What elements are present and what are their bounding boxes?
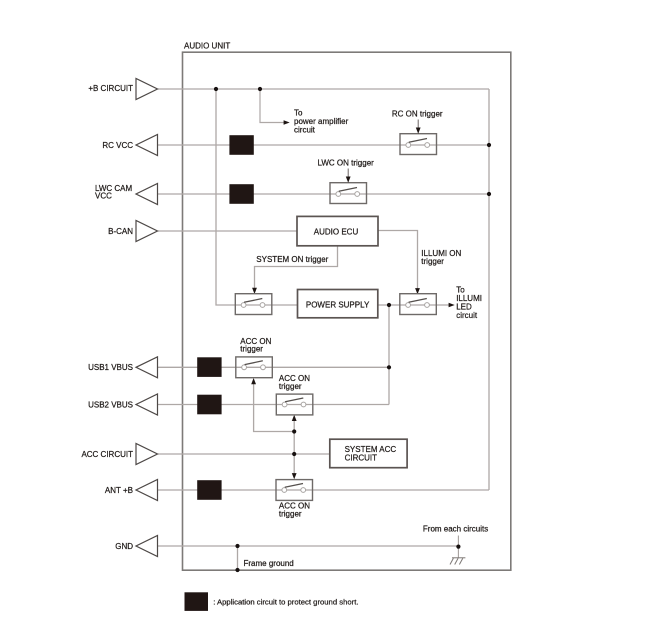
wire ACC CIRCUIT row y=454	[158, 453, 330, 455]
ground symbol chassis	[450, 558, 465, 565]
wire +B bus horizontal y=89	[158, 88, 489, 90]
junction dot +B branch1	[214, 87, 218, 91]
svg-text:trigger: trigger	[421, 257, 444, 266]
svg-text:POWER SUPPLY: POWER SUPPLY	[306, 301, 370, 310]
wire B-CAN row y=231	[158, 230, 297, 232]
svg-text:SYSTEM ON trigger: SYSTEM ON trigger	[256, 255, 328, 264]
port ANT +B	[136, 480, 158, 501]
switch ACC ON for USB2	[276, 394, 313, 415]
arrowhead to power amplifier	[284, 120, 290, 125]
switch ACC ON for ANT	[276, 480, 313, 501]
wire POWER SUPPLY to ILLUMI switch output	[378, 304, 450, 306]
port ACC CIRCUIT	[136, 444, 158, 465]
junction dot +B branch2	[258, 87, 262, 91]
switch RC ON	[400, 134, 437, 155]
wire SYSTEM ON trigger from AUDIO ECU	[255, 246, 338, 289]
protection circuit block RC VCC	[229, 135, 253, 155]
protection circuit block USB1	[197, 357, 221, 377]
protection circuit block LWC	[229, 184, 253, 204]
svg-text:Frame ground: Frame ground	[244, 559, 294, 568]
wire branch to power amplifier	[260, 89, 285, 123]
arrowhead ACC trigger into USB2 switch	[292, 415, 297, 421]
block SYSTEM ACC CIRCUIT	[330, 439, 407, 468]
protection circuit block USB2	[197, 395, 221, 415]
switch ACC ON for USB1	[236, 357, 272, 378]
wire GND row y=546	[158, 545, 458, 547]
wire from each circuits drop	[457, 536, 459, 558]
arrowhead ACC trigger into ANT switch	[292, 473, 297, 479]
svg-text:VCC: VCC	[95, 192, 112, 201]
svg-text:CIRCUIT: CIRCUIT	[345, 453, 378, 462]
port B-CAN	[136, 221, 158, 242]
switch LWC ON	[330, 183, 367, 204]
wire USB1 VBUS row y=367.3	[158, 366, 389, 368]
wire +B branch down to SYSTEM ON switch	[216, 89, 298, 305]
arrowhead to ILLUMI LED circuit	[449, 303, 455, 308]
junction dot from each circuits	[456, 545, 460, 549]
port USB2 VBUS	[136, 394, 158, 415]
protection circuit block ANT	[197, 480, 221, 500]
svg-text:+B CIRCUIT: +B CIRCUIT	[88, 84, 133, 93]
junction dot USB1 output node	[387, 365, 391, 369]
wire +B right bus vertical x=489	[488, 89, 490, 490]
svg-text:circuit: circuit	[294, 125, 316, 134]
block AUDIO ECU	[297, 216, 378, 245]
port GND	[136, 536, 158, 557]
audio unit enclosure	[183, 52, 511, 570]
svg-text:USB2 VBUS: USB2 VBUS	[88, 400, 133, 409]
arrowhead ACC trigger into USB1 switch	[251, 378, 256, 384]
legend protection block	[185, 592, 209, 611]
wire vertical x=389 POWER SUPPLY node to USB2 row	[388, 305, 390, 405]
svg-text:LWC ON trigger: LWC ON trigger	[318, 159, 375, 168]
junction dot ACC trigger branch node	[292, 429, 296, 433]
port USB1 VBUS	[136, 357, 158, 378]
port +B CIRCUIT	[136, 79, 158, 100]
arrowhead ILLUMI trigger into switch	[415, 288, 420, 294]
wire ACC trigger branch to USB1 switch	[254, 382, 295, 432]
block POWER SUPPLY	[298, 290, 378, 318]
junction dot LWC output on right bus	[487, 192, 491, 196]
svg-text:From each circuits: From each circuits	[423, 525, 488, 534]
svg-text:trigger: trigger	[279, 382, 302, 391]
svg-text:: Application circuit to prote: : Application circuit to protect ground …	[213, 597, 358, 606]
wire ILLUMI ON trigger from AUDIO ECU	[378, 231, 418, 289]
switch SYSTEM ON	[235, 294, 271, 315]
svg-text:circuit: circuit	[456, 311, 478, 320]
trigger stub RC ON	[417, 120, 419, 129]
arrowhead LWC trigger	[346, 177, 351, 183]
port RC VCC	[136, 135, 158, 156]
wire frame ground drop	[237, 546, 239, 570]
port LWC CAM VCC	[136, 184, 158, 205]
arrowhead RC trigger	[416, 128, 421, 134]
svg-text:trigger: trigger	[240, 345, 263, 354]
arrowhead SYSTEM trigger into switch	[252, 288, 257, 294]
svg-text:RC ON trigger: RC ON trigger	[392, 110, 443, 119]
junction dot ACC circuit node	[292, 452, 296, 456]
wire ACC trigger vertical x=294	[293, 418, 295, 475]
junction dot POWER SUPPLY node	[387, 303, 391, 307]
wire LWC row y=194	[158, 193, 489, 195]
junction dot RC output on right bus	[487, 143, 491, 147]
wire RC VCC row y=145	[158, 144, 489, 146]
junction dot frame ground on GND wire	[235, 544, 239, 548]
svg-text:AUDIO ECU: AUDIO ECU	[314, 228, 359, 237]
svg-text:ACC CIRCUIT: ACC CIRCUIT	[81, 450, 133, 459]
svg-text:RC VCC: RC VCC	[102, 141, 133, 150]
svg-text:ANT +B: ANT +B	[105, 486, 133, 495]
svg-text:trigger: trigger	[279, 509, 302, 518]
svg-text:GND: GND	[115, 542, 133, 551]
svg-text:USB1 VBUS: USB1 VBUS	[88, 363, 133, 372]
wire USB2 VBUS row y=404.5	[158, 404, 389, 406]
switch ILLUMI ON	[400, 294, 437, 315]
svg-text:AUDIO UNIT: AUDIO UNIT	[184, 42, 230, 51]
trigger stub LWC ON	[347, 169, 349, 178]
wire ANT +B row y=490	[158, 489, 489, 491]
svg-text:B-CAN: B-CAN	[108, 227, 133, 236]
junction dot frame ground on enclosure	[235, 568, 239, 572]
